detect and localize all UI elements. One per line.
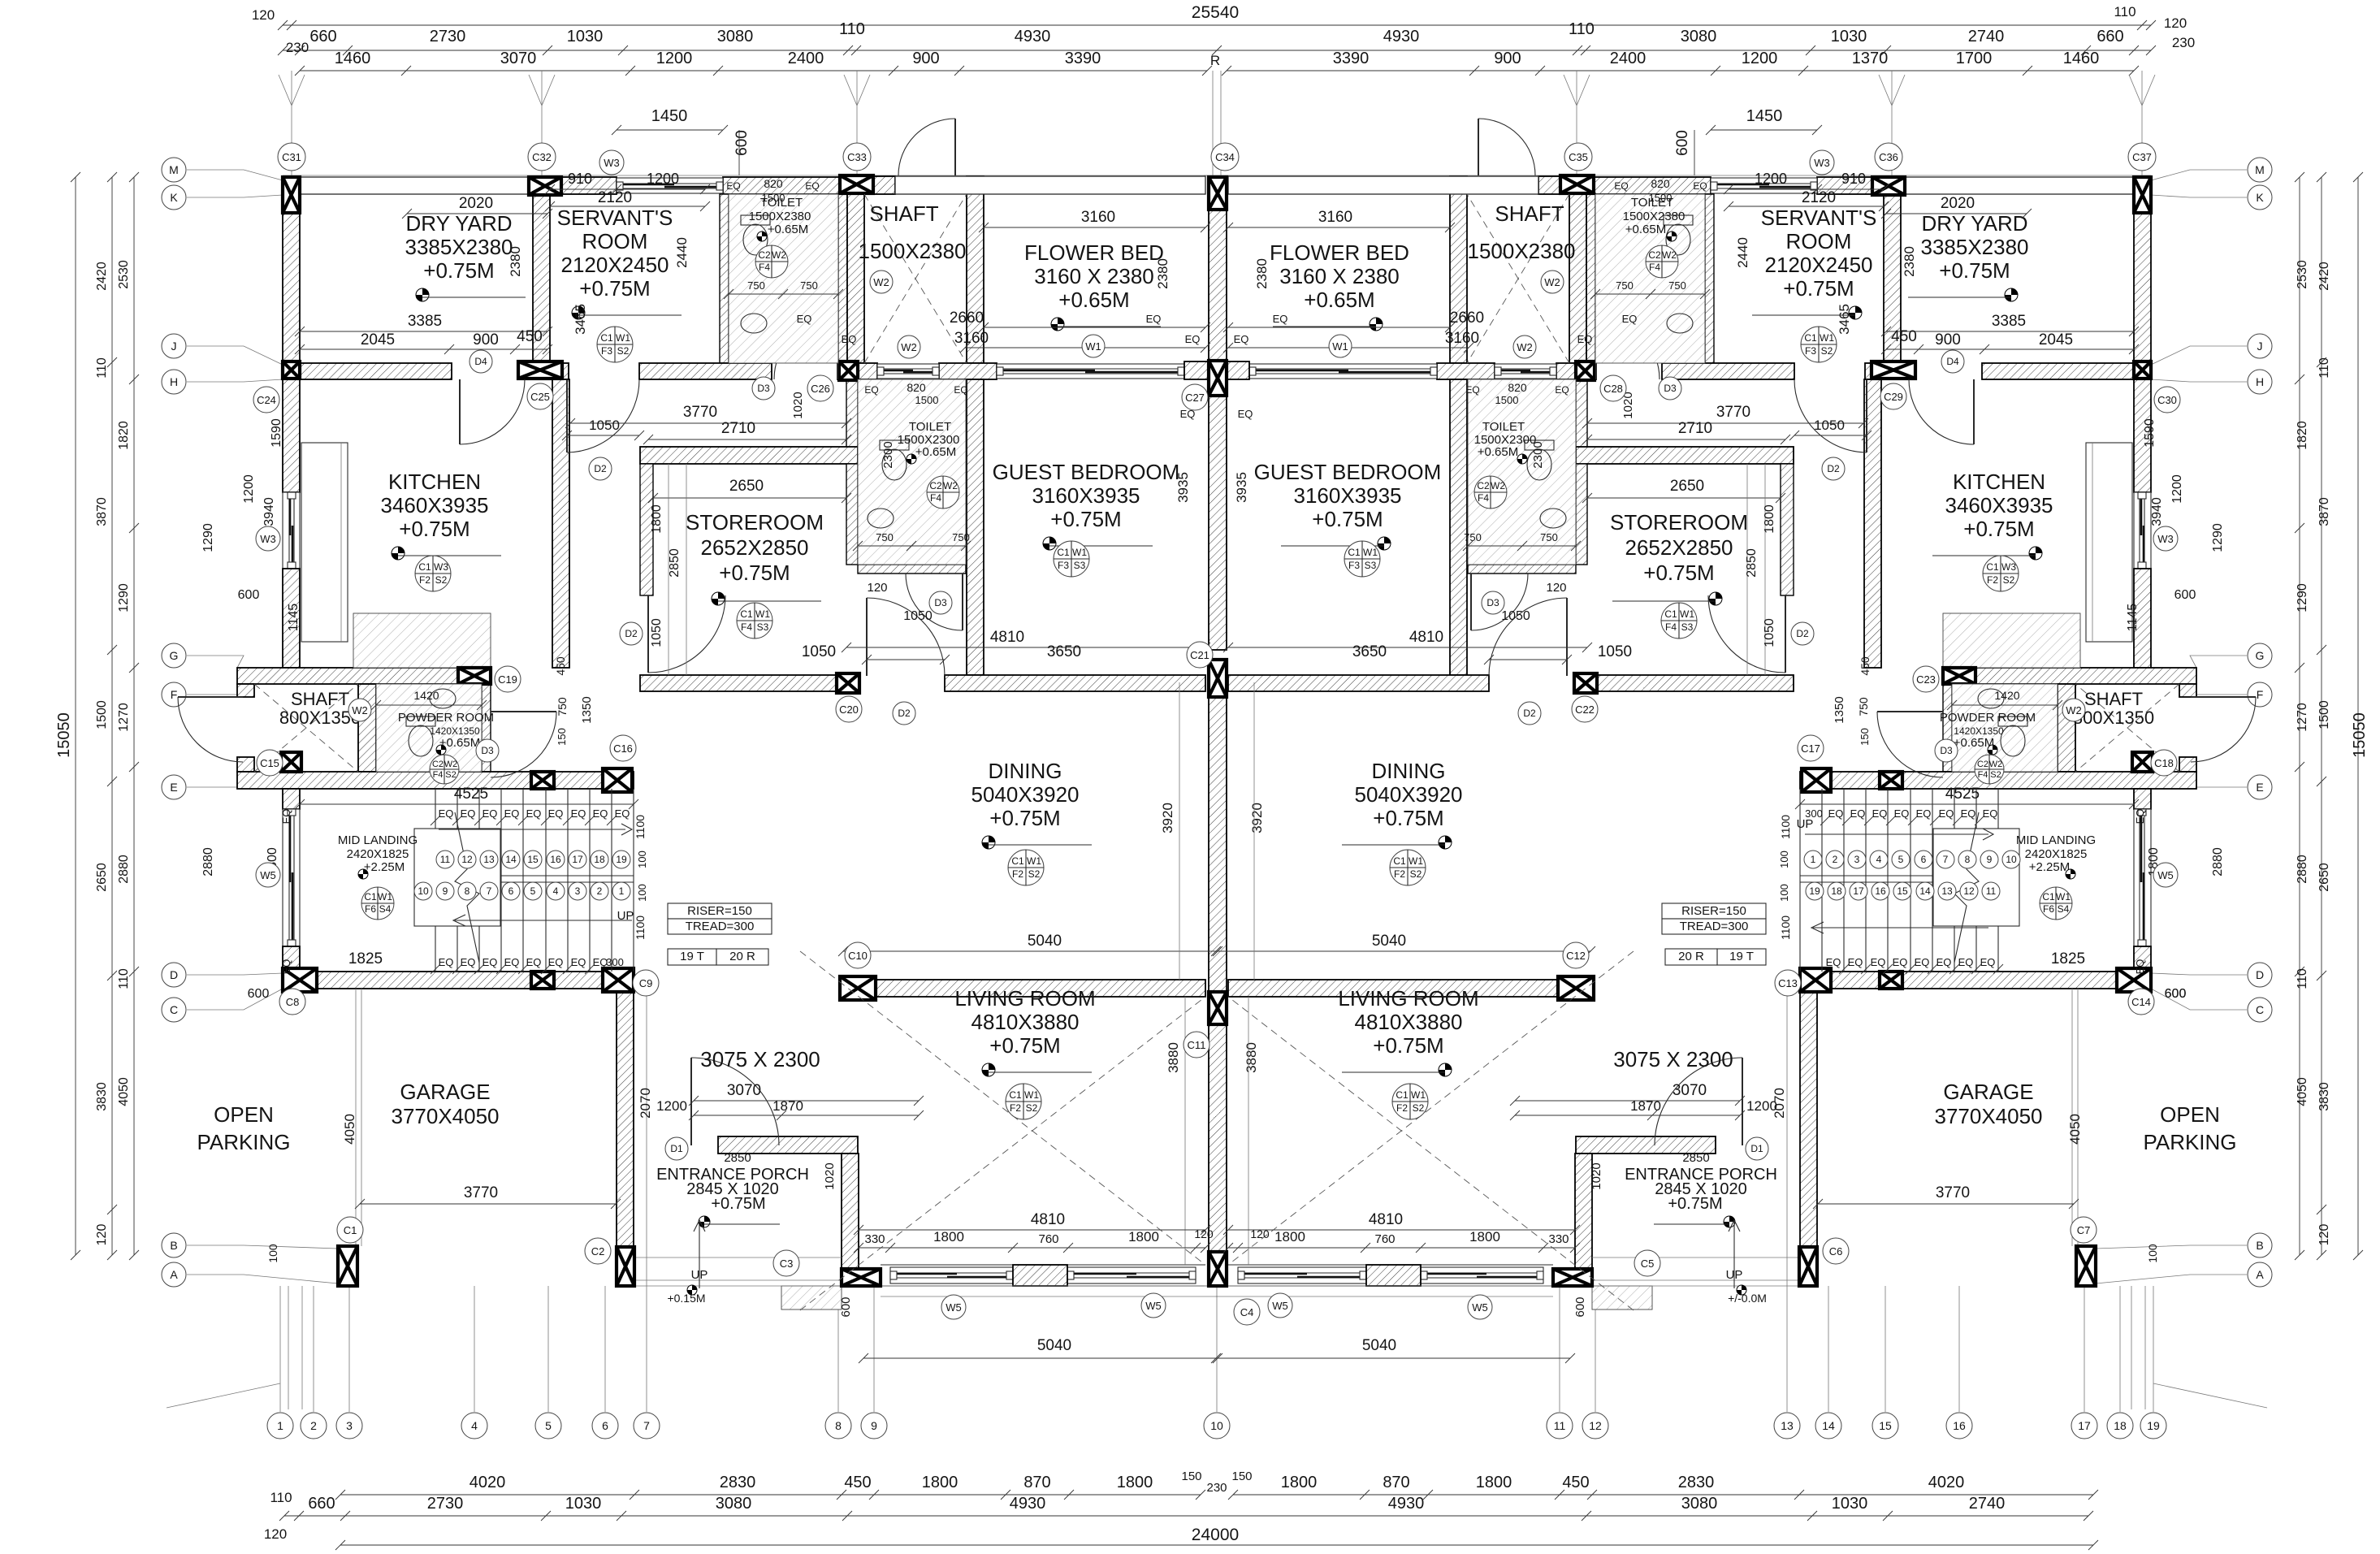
finish tag toilet1 — [755, 245, 788, 278]
column bubble C30 — [2154, 387, 2180, 413]
svg-text:16: 16 — [550, 854, 561, 865]
wall: top outer face line — [283, 175, 1230, 176]
svg-text:2740: 2740 — [1968, 28, 2005, 45]
kitchen slab hatch — [353, 613, 491, 668]
svg-text:1020: 1020 — [791, 392, 805, 418]
svg-text:D3: D3 — [481, 745, 494, 756]
svg-text:120: 120 — [252, 7, 275, 23]
door D4 kitchen — [459, 379, 461, 444]
svg-text:1500: 1500 — [1649, 192, 1672, 204]
svg-text:100: 100 — [266, 1244, 279, 1263]
svg-text:C33: C33 — [847, 151, 867, 163]
svg-text:W5: W5 — [946, 1301, 962, 1314]
wall: storeroom top wall — [640, 447, 858, 464]
svg-text:1820: 1820 — [117, 421, 131, 450]
party wall upper segment — [1209, 210, 1227, 650]
svg-text:KITCHEN: KITCHEN — [388, 470, 481, 494]
door bubble D2 dining — [893, 702, 915, 725]
svg-text:1050: 1050 — [589, 418, 620, 433]
svg-text:2660: 2660 — [950, 310, 984, 327]
svg-text:120: 120 — [1194, 1227, 1214, 1240]
svg-text:+0.75M: +0.75M — [719, 561, 790, 585]
svg-text:1800: 1800 — [1763, 504, 1776, 534]
svg-text:EQ: EQ — [1555, 384, 1569, 396]
svg-text:5040X3920: 5040X3920 — [1354, 782, 1462, 807]
svg-text:1420X1350: 1420X1350 — [1954, 725, 2004, 737]
svg-text:EQ: EQ — [842, 333, 857, 345]
svg-text:3920: 3920 — [1160, 803, 1175, 833]
svg-text:110: 110 — [839, 20, 865, 38]
svg-text:W2: W2 — [901, 341, 917, 353]
column bubble C20 — [836, 696, 862, 722]
wall: J-line kitchen top — [300, 363, 452, 379]
grid bubble C37 — [2128, 143, 2156, 171]
svg-text:1200: 1200 — [656, 1098, 687, 1114]
svg-text:POWDER ROOM: POWDER ROOM — [398, 711, 494, 725]
svg-text:600: 600 — [1674, 130, 1691, 156]
svg-text:1420: 1420 — [413, 689, 439, 702]
svg-text:1100: 1100 — [1779, 916, 1792, 940]
door D3 powder room — [491, 711, 556, 712]
svg-text:C15: C15 — [260, 757, 279, 769]
column C24 — [283, 361, 300, 379]
column C15 — [281, 752, 301, 772]
svg-text:SERVANT'S: SERVANT'S — [1761, 206, 1877, 230]
svg-text:J: J — [171, 340, 177, 353]
svg-text:4: 4 — [471, 1419, 478, 1432]
svg-text:2070: 2070 — [1772, 1088, 1787, 1119]
svg-text:1050: 1050 — [650, 618, 664, 647]
stair EQ dims — [300, 803, 634, 805]
svg-text:5040: 5040 — [1028, 933, 1062, 950]
svg-text:4: 4 — [1876, 854, 1882, 865]
svg-text:W1: W1 — [1024, 1089, 1039, 1101]
svg-text:C32: C32 — [532, 151, 552, 163]
svg-text:D3: D3 — [1664, 383, 1677, 394]
svg-text:S2: S2 — [1028, 868, 1041, 880]
svg-text:RISER=150: RISER=150 — [687, 904, 752, 918]
svg-text:C14: C14 — [2131, 996, 2151, 1008]
svg-text:H: H — [170, 375, 178, 388]
svg-text:3390: 3390 — [1333, 50, 1370, 67]
svg-text:1500X2380: 1500X2380 — [1467, 239, 1575, 263]
svg-text:3385: 3385 — [1992, 313, 2026, 330]
svg-text:1500: 1500 — [95, 700, 109, 729]
open parking guide lines — [288, 1286, 289, 1409]
svg-text:2740: 2740 — [1969, 1495, 2006, 1513]
svg-text:F: F — [171, 688, 178, 701]
svg-text:2660: 2660 — [1450, 310, 1484, 327]
svg-text:4930: 4930 — [1388, 1495, 1425, 1513]
svg-text:STOREROOM: STOREROOM — [1610, 510, 1748, 535]
column bubble C22 — [1572, 696, 1598, 722]
wall: storeroom bottom wall — [640, 675, 838, 691]
svg-text:F4: F4 — [1649, 262, 1660, 273]
finish tag toilet2 — [927, 476, 959, 509]
svg-text:C30: C30 — [2157, 394, 2177, 406]
dim chain: bottom row 1 — [340, 1494, 1201, 1496]
svg-text:EQ: EQ — [280, 959, 292, 975]
WC toilet2 — [880, 440, 909, 480]
svg-text:3920: 3920 — [1249, 803, 1265, 833]
svg-text:19: 19 — [2147, 1419, 2160, 1432]
stair mid landing lines — [435, 875, 634, 877]
dim chain: overall width 25540 — [283, 24, 2151, 26]
svg-text:2: 2 — [1833, 854, 1838, 865]
door bubble D1 porch — [665, 1137, 688, 1160]
svg-text:1200: 1200 — [242, 474, 256, 504]
svg-text:1020: 1020 — [1590, 1162, 1603, 1189]
svg-text:4020: 4020 — [470, 1474, 506, 1491]
dim chain: left overall 15050 — [75, 177, 76, 1255]
svg-text:F4: F4 — [930, 492, 941, 504]
column bubble C19 — [495, 666, 521, 692]
svg-text:C1: C1 — [344, 1224, 357, 1236]
wall: left outer wall (upper) — [283, 213, 300, 363]
svg-text:20 R: 20 R — [1678, 950, 1704, 963]
svg-text:C22: C22 — [1575, 703, 1595, 716]
svg-text:1030: 1030 — [1832, 1495, 1868, 1513]
svg-text:910: 910 — [568, 171, 592, 187]
svg-text:660: 660 — [308, 1495, 335, 1513]
svg-text:+0.75M: +0.75M — [989, 806, 1060, 830]
svg-text:+0.75M: +0.75M — [1050, 507, 1121, 531]
svg-text:EQ: EQ — [504, 956, 520, 968]
svg-text:2710: 2710 — [1678, 420, 1712, 437]
svg-text:600: 600 — [733, 130, 751, 156]
svg-text:W5: W5 — [1145, 1300, 1162, 1312]
dims porch — [694, 1100, 919, 1102]
svg-text:1500X2380: 1500X2380 — [749, 210, 811, 223]
dims guest bottom — [846, 647, 1205, 648]
svg-text:2420: 2420 — [95, 262, 109, 291]
dims powder room — [376, 704, 482, 706]
svg-text:18: 18 — [594, 854, 605, 865]
svg-text:C5: C5 — [1641, 1257, 1655, 1270]
svg-text:S2: S2 — [2003, 574, 2015, 586]
svg-text:3770: 3770 — [1716, 404, 1750, 421]
column C33 — [840, 175, 873, 193]
svg-text:6: 6 — [602, 1419, 608, 1432]
svg-text:MID LANDING: MID LANDING — [338, 833, 418, 847]
porch/living step line — [881, 1296, 1218, 1297]
svg-text:OPEN: OPEN — [214, 1102, 274, 1127]
svg-text:19: 19 — [616, 854, 627, 865]
svg-text:4050: 4050 — [342, 1114, 357, 1145]
svg-text:1370: 1370 — [1852, 50, 1889, 67]
door bubble D4 — [470, 350, 492, 373]
svg-text:3935: 3935 — [1234, 472, 1249, 503]
svg-text:EQ: EQ — [805, 180, 819, 192]
svg-text:2: 2 — [597, 885, 603, 897]
svg-text:W1: W1 — [616, 332, 630, 344]
svg-text:2650: 2650 — [95, 863, 109, 892]
svg-text:F3: F3 — [1058, 560, 1069, 571]
svg-text:F4: F4 — [1978, 770, 1988, 780]
svg-text:B: B — [2256, 1239, 2263, 1252]
svg-text:F4: F4 — [759, 262, 770, 273]
svg-text:RISER=150: RISER=150 — [1681, 904, 1746, 918]
wall: shaft2 outer wall pieces — [237, 684, 254, 697]
svg-text:3: 3 — [575, 885, 581, 897]
svg-text:2440: 2440 — [1735, 237, 1750, 268]
svg-text:S2: S2 — [1990, 770, 2001, 780]
svg-text:4810: 4810 — [990, 629, 1024, 646]
svg-text:3650: 3650 — [1047, 643, 1081, 660]
door D3 toilet2 — [962, 574, 963, 630]
svg-text:M: M — [2255, 163, 2265, 176]
column bubble C13 — [1775, 970, 1801, 996]
svg-text:EQ: EQ — [1872, 807, 1888, 820]
svg-text:TOILET: TOILET — [1482, 420, 1525, 434]
svg-text:11: 11 — [440, 854, 451, 865]
svg-text:3465: 3465 — [1837, 304, 1852, 335]
finish tag powder — [430, 755, 459, 784]
svg-text:2710: 2710 — [721, 420, 755, 437]
svg-text:EQ: EQ — [1961, 807, 1976, 820]
svg-text:3830: 3830 — [2317, 1082, 2331, 1111]
svg-text:450: 450 — [1859, 656, 1872, 676]
svg-text:1030: 1030 — [1831, 28, 1867, 45]
powder room floor hatch — [376, 684, 482, 772]
svg-text:E: E — [170, 781, 177, 794]
svg-text:3070: 3070 — [727, 1082, 761, 1099]
svg-text:C1: C1 — [1348, 547, 1361, 558]
svg-text:H: H — [2256, 375, 2264, 388]
svg-text:W5: W5 — [1272, 1300, 1288, 1312]
svg-text:3160: 3160 — [1081, 209, 1115, 226]
svg-text:15050: 15050 — [2351, 712, 2369, 758]
svg-text:C1: C1 — [364, 891, 377, 903]
svg-text:1590: 1590 — [2143, 418, 2157, 448]
svg-text:D3: D3 — [1486, 597, 1499, 608]
svg-text:2850: 2850 — [724, 1151, 751, 1165]
svg-text:EQ: EQ — [482, 956, 498, 968]
stair mid-landing outline box — [414, 829, 500, 926]
svg-text:1800: 1800 — [1117, 1474, 1153, 1491]
svg-text:F3: F3 — [601, 345, 612, 357]
flower bed top edge band — [895, 176, 1205, 194]
svg-text:19: 19 — [1809, 885, 1820, 897]
svg-text:1870: 1870 — [1630, 1098, 1661, 1114]
column C16 — [603, 768, 632, 792]
door D2 storeroom — [647, 595, 649, 673]
svg-text:A: A — [2256, 1268, 2264, 1281]
svg-text:EQ: EQ — [1146, 313, 1162, 325]
toilet2 floor hatch — [858, 379, 966, 565]
svg-text:ROOM: ROOM — [1786, 229, 1852, 253]
svg-text:5: 5 — [545, 1419, 552, 1432]
svg-text:3160X3935: 3160X3935 — [1293, 483, 1401, 508]
column bubble C14 — [2128, 989, 2154, 1015]
svg-text:SHAFT: SHAFT — [1495, 201, 1564, 226]
svg-text:3160X3935: 3160X3935 — [1032, 483, 1140, 508]
svg-text:F3: F3 — [1348, 560, 1360, 571]
svg-text:+0.75M: +0.75M — [1939, 258, 2010, 283]
column C19 — [458, 668, 491, 684]
svg-text:1800: 1800 — [1469, 1229, 1500, 1244]
svg-text:C26: C26 — [811, 383, 830, 395]
svg-text:SERVANT'S: SERVANT'S — [557, 206, 673, 230]
basin powder — [430, 689, 456, 708]
grid bubble C35 — [1564, 143, 1592, 171]
svg-text:4: 4 — [553, 885, 559, 897]
svg-text:S2: S2 — [445, 770, 456, 780]
svg-text:W1: W1 — [1332, 340, 1348, 353]
column C4 (party) — [1209, 1252, 1227, 1286]
svg-text:D2: D2 — [1827, 463, 1840, 474]
svg-text:12: 12 — [1963, 885, 1975, 897]
svg-text:2020: 2020 — [1941, 195, 1975, 212]
svg-text:1270: 1270 — [2296, 703, 2309, 732]
wall: toilet2 left partition — [846, 379, 858, 464]
stair break line — [455, 812, 479, 963]
column bubble C1 — [337, 1217, 363, 1243]
column bubble C7 — [2071, 1217, 2097, 1243]
column bubble C21 — [1187, 642, 1213, 668]
living bottom window band — [881, 1264, 1205, 1266]
svg-text:C2: C2 — [1648, 249, 1661, 261]
svg-text:C36: C36 — [1879, 151, 1898, 163]
svg-text:15: 15 — [1897, 885, 1908, 897]
svg-text:16: 16 — [1875, 885, 1886, 897]
svg-text:+/-0.0M: +/-0.0M — [1728, 1292, 1767, 1305]
svg-text:100: 100 — [636, 884, 648, 902]
svg-text:SHAFT: SHAFT — [291, 689, 349, 709]
svg-text:3080: 3080 — [716, 1495, 752, 1513]
svg-text:+0.75M: +0.75M — [1373, 806, 1443, 830]
svg-text:D1: D1 — [1750, 1143, 1763, 1154]
svg-text:3160: 3160 — [1445, 330, 1479, 347]
svg-text:19 T: 19 T — [680, 950, 704, 963]
svg-text:SHAFT: SHAFT — [869, 201, 938, 226]
svg-text:1290: 1290 — [2211, 523, 2225, 552]
svg-text:24000: 24000 — [1192, 1526, 1239, 1544]
svg-text:W5: W5 — [260, 869, 276, 881]
column C21 (party) — [1209, 660, 1227, 697]
svg-text:2400: 2400 — [1610, 50, 1647, 67]
svg-text:F3: F3 — [1805, 345, 1816, 357]
svg-text:W1: W1 — [1411, 1089, 1426, 1101]
svg-text:2730: 2730 — [430, 28, 466, 45]
column C11 (party) — [1209, 992, 1227, 1024]
svg-text:+0.75M: +0.75M — [989, 1033, 1060, 1058]
column C2 — [617, 1247, 634, 1286]
dim chain: top row 1 — [283, 50, 2151, 51]
svg-text:EQ: EQ — [1936, 956, 1952, 968]
svg-text:C17: C17 — [1801, 742, 1820, 755]
svg-text:EQ: EQ — [571, 807, 586, 820]
svg-text:C1: C1 — [1057, 547, 1070, 558]
column C10 — [840, 976, 876, 1000]
svg-text:900: 900 — [1935, 331, 1961, 348]
svg-text:110: 110 — [2296, 968, 2309, 989]
svg-text:820: 820 — [907, 381, 926, 394]
svg-text:F4: F4 — [1478, 492, 1489, 504]
svg-text:C1: C1 — [1009, 1089, 1022, 1101]
svg-text:EQ: EQ — [1915, 956, 1930, 968]
svg-text:C2: C2 — [1477, 480, 1490, 491]
svg-text:G: G — [2256, 649, 2265, 662]
finish tag storeroom — [737, 603, 772, 638]
wall: guest bedroom left wall — [967, 379, 984, 675]
dims toilet2 750/750 — [858, 545, 966, 547]
svg-text:C: C — [2256, 1003, 2264, 1016]
svg-text:20 R: 20 R — [729, 950, 755, 963]
svg-text:1020: 1020 — [823, 1162, 837, 1189]
svg-text:760: 760 — [1038, 1232, 1058, 1246]
svg-text:2070: 2070 — [638, 1088, 653, 1119]
finish tag servant — [597, 327, 633, 362]
column on D wall — [531, 972, 554, 989]
svg-text:D4: D4 — [1946, 356, 1959, 367]
svg-text:D2: D2 — [1796, 628, 1809, 639]
svg-text:DRY YARD: DRY YARD — [405, 211, 512, 236]
svg-text:1420: 1420 — [1994, 689, 2019, 702]
svg-text:2830: 2830 — [1678, 1474, 1715, 1491]
svg-text:C13: C13 — [1778, 977, 1798, 989]
svg-text:EQ: EQ — [1622, 313, 1638, 325]
wall: top wall segment W3window-C33 — [723, 177, 840, 194]
svg-text:+0.65M: +0.65M — [1058, 288, 1129, 312]
svg-text:EQ: EQ — [2134, 959, 2146, 975]
svg-text:E: E — [2256, 781, 2263, 794]
svg-text:3385: 3385 — [408, 313, 442, 330]
svg-text:C6: C6 — [1829, 1245, 1843, 1257]
svg-text:EQ: EQ — [1871, 956, 1886, 968]
svg-text:S2: S2 — [617, 345, 630, 357]
wall: J-line seg3 — [639, 363, 772, 379]
svg-text:3: 3 — [346, 1419, 353, 1432]
svg-text:F2: F2 — [1012, 868, 1023, 880]
svg-text:1050: 1050 — [802, 643, 836, 660]
svg-text:EQ: EQ — [548, 807, 564, 820]
svg-text:2380: 2380 — [1155, 258, 1171, 289]
svg-text:110: 110 — [2114, 4, 2136, 19]
door at shaft1 top (main rear door) — [954, 119, 956, 175]
svg-text:PARKING: PARKING — [197, 1130, 290, 1154]
svg-text:DINING: DINING — [1372, 759, 1446, 783]
wall: kitchen right wall — [552, 379, 569, 668]
svg-text:150: 150 — [1181, 1470, 1201, 1483]
dim chain: left chain 3 — [133, 177, 135, 1255]
svg-text:2: 2 — [310, 1419, 317, 1432]
svg-text:4930: 4930 — [1010, 1495, 1046, 1513]
svg-text:6: 6 — [508, 885, 514, 897]
svg-text:W1: W1 — [378, 891, 392, 903]
column on E wall — [531, 772, 554, 789]
svg-text:1450: 1450 — [651, 107, 688, 125]
wall: dry yard parapet (top) — [300, 177, 529, 194]
svg-text:110: 110 — [2317, 357, 2331, 379]
svg-text:2400: 2400 — [788, 50, 824, 67]
svg-text:C1: C1 — [2042, 891, 2055, 903]
svg-text:W5: W5 — [2157, 869, 2174, 881]
svg-text:4050: 4050 — [2296, 1077, 2309, 1106]
svg-text:W2: W2 — [873, 276, 889, 288]
svg-text:W3: W3 — [434, 561, 448, 573]
svg-text:1800: 1800 — [1476, 1474, 1512, 1491]
svg-text:M: M — [169, 163, 179, 176]
svg-text:EQ: EQ — [482, 807, 498, 820]
party wall lower segment — [1209, 1024, 1227, 1252]
svg-text:120: 120 — [867, 581, 887, 595]
svg-text:1700: 1700 — [1956, 50, 1993, 67]
svg-text:C35: C35 — [1569, 151, 1588, 163]
svg-text:1500: 1500 — [762, 192, 785, 204]
svg-text:120: 120 — [1546, 581, 1566, 595]
wall: shaft2/powder partition — [358, 684, 376, 772]
